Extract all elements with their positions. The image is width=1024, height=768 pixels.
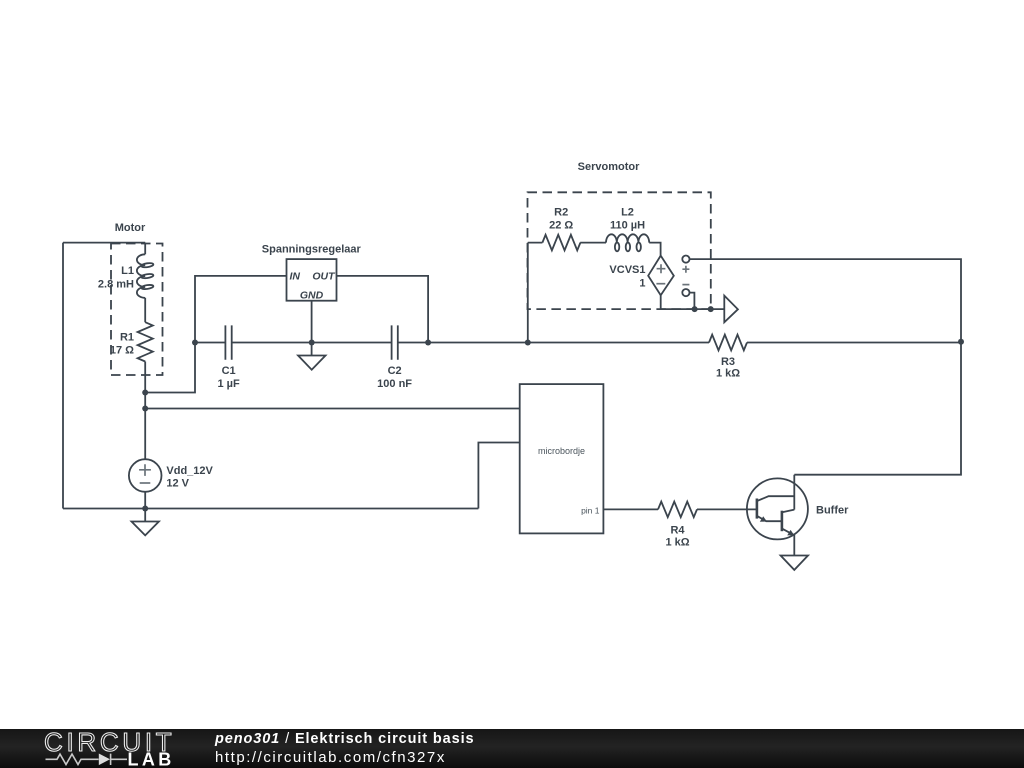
svg-text:100 nF: 100 nF (377, 378, 412, 390)
svg-text:C1: C1 (222, 365, 236, 377)
svg-text:R4: R4 (670, 525, 685, 537)
svg-text:microbordje: microbordje (538, 446, 585, 456)
svg-text:22 Ω: 22 Ω (549, 220, 573, 232)
svg-text:VCVS1: VCVS1 (609, 264, 645, 276)
svg-text:1 µF: 1 µF (217, 378, 240, 390)
svg-text:Motor: Motor (115, 222, 146, 234)
svg-text:L1: L1 (121, 265, 134, 277)
svg-text:C2: C2 (388, 365, 402, 377)
svg-text:Buffer: Buffer (816, 505, 849, 517)
svg-text:R1: R1 (120, 331, 134, 343)
svg-text:Servomotor: Servomotor (578, 161, 640, 173)
svg-text:17 Ω: 17 Ω (110, 345, 134, 357)
svg-text:1 kΩ: 1 kΩ (665, 537, 689, 549)
svg-text:pin 1: pin 1 (581, 506, 600, 516)
svg-text:12 V: 12 V (166, 478, 189, 490)
svg-text:1: 1 (639, 278, 645, 290)
svg-text:L2: L2 (621, 206, 634, 218)
svg-text:OUT: OUT (312, 271, 336, 283)
svg-text:R2: R2 (554, 206, 568, 218)
svg-text:LAB: LAB (128, 750, 175, 768)
svg-text:2.8 mH: 2.8 mH (98, 279, 134, 291)
svg-text:1 kΩ: 1 kΩ (716, 368, 740, 380)
svg-text:Vdd_12V: Vdd_12V (166, 465, 213, 477)
svg-text:R3: R3 (721, 356, 735, 368)
svg-text:GND: GND (300, 289, 324, 301)
svg-text:IN: IN (290, 271, 301, 283)
svg-text:110 µH: 110 µH (610, 220, 645, 232)
svg-text:Spanningsregelaar: Spanningsregelaar (262, 244, 362, 256)
